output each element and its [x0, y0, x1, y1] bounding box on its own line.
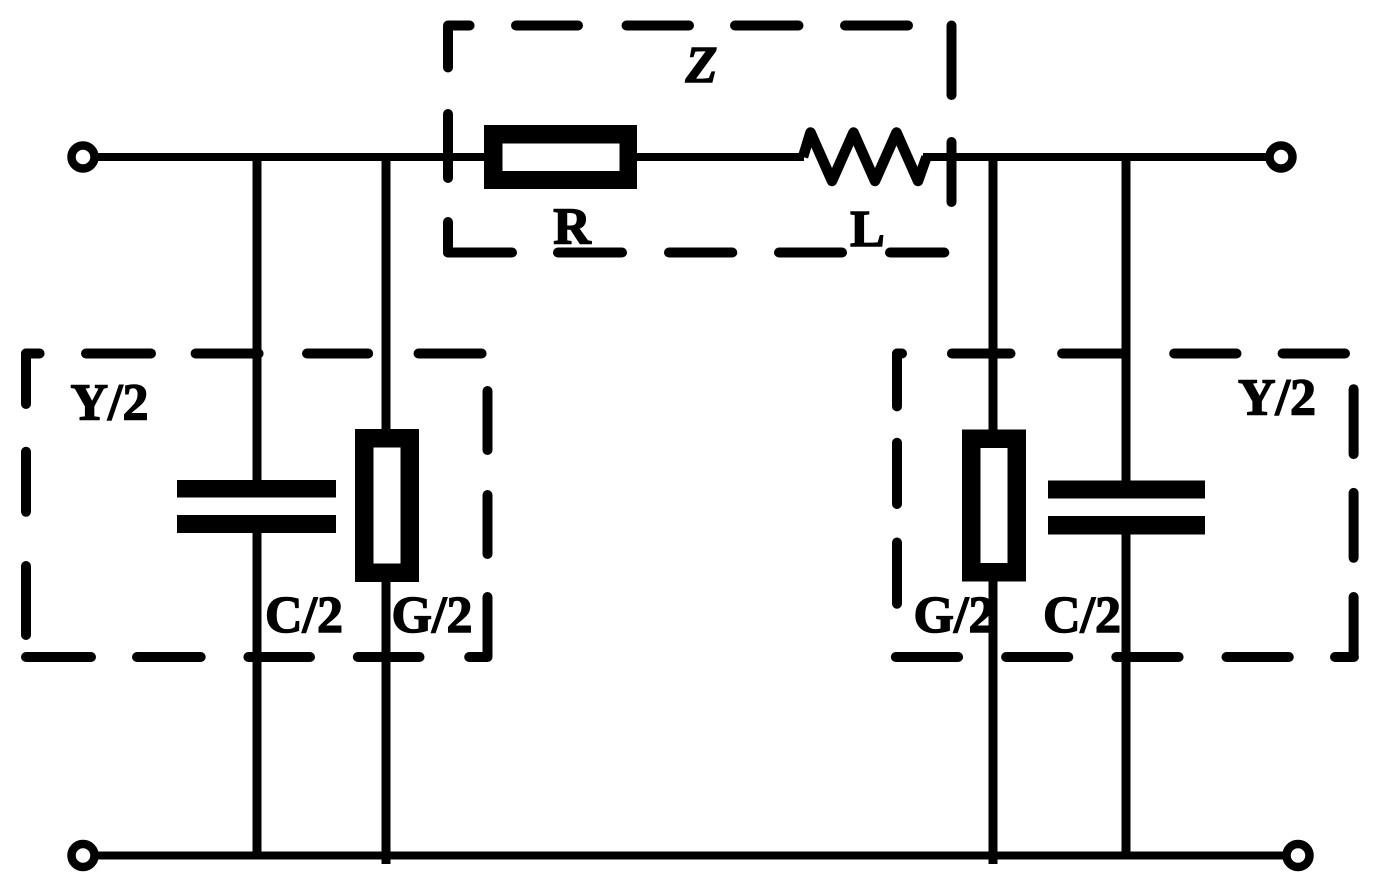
wire top middle segment — [637, 153, 804, 161]
terminal top-left — [72, 146, 95, 169]
conductance G/2 left — [355, 429, 419, 582]
wire bottom — [96, 852, 1284, 860]
svg-text:R: R — [553, 199, 592, 256]
wire right C branch lower — [1122, 533, 1131, 858]
svg-text:Y/2: Y/2 — [71, 375, 149, 432]
dashed box Y/2 left — [26, 354, 488, 658]
wire left G branch lower — [382, 580, 391, 864]
wire right C branch upper — [1122, 153, 1131, 481]
svg-text:C/2: C/2 — [265, 587, 343, 644]
wire left G branch upper — [382, 153, 391, 431]
wire right G branch upper — [989, 153, 998, 431]
svg-text:G/2: G/2 — [392, 587, 473, 644]
capacitor C/2 right — [1048, 481, 1205, 535]
wire top left segment — [96, 153, 484, 161]
terminal top-right — [1270, 146, 1293, 169]
inductor L — [803, 133, 927, 182]
conductance G/2 right — [962, 430, 1026, 582]
svg-text:C/2: C/2 — [1043, 587, 1121, 644]
svg-text:Z: Z — [685, 37, 718, 94]
wire right G branch lower — [989, 580, 998, 864]
dashed box Y/2 right — [896, 354, 1354, 658]
svg-text:G/2: G/2 — [914, 587, 995, 644]
terminal bottom-right — [1287, 844, 1310, 867]
svg-text:L: L — [850, 201, 885, 258]
wire left C branch upper — [253, 153, 262, 481]
capacitor C/2 left — [177, 480, 336, 533]
terminal bottom-left — [72, 844, 95, 867]
resistor R — [484, 125, 637, 189]
svg-text:Y/2: Y/2 — [1238, 370, 1316, 427]
dashed box Z — [448, 26, 952, 253]
wire top right segment — [923, 153, 1267, 161]
wire left C branch lower — [253, 532, 262, 858]
